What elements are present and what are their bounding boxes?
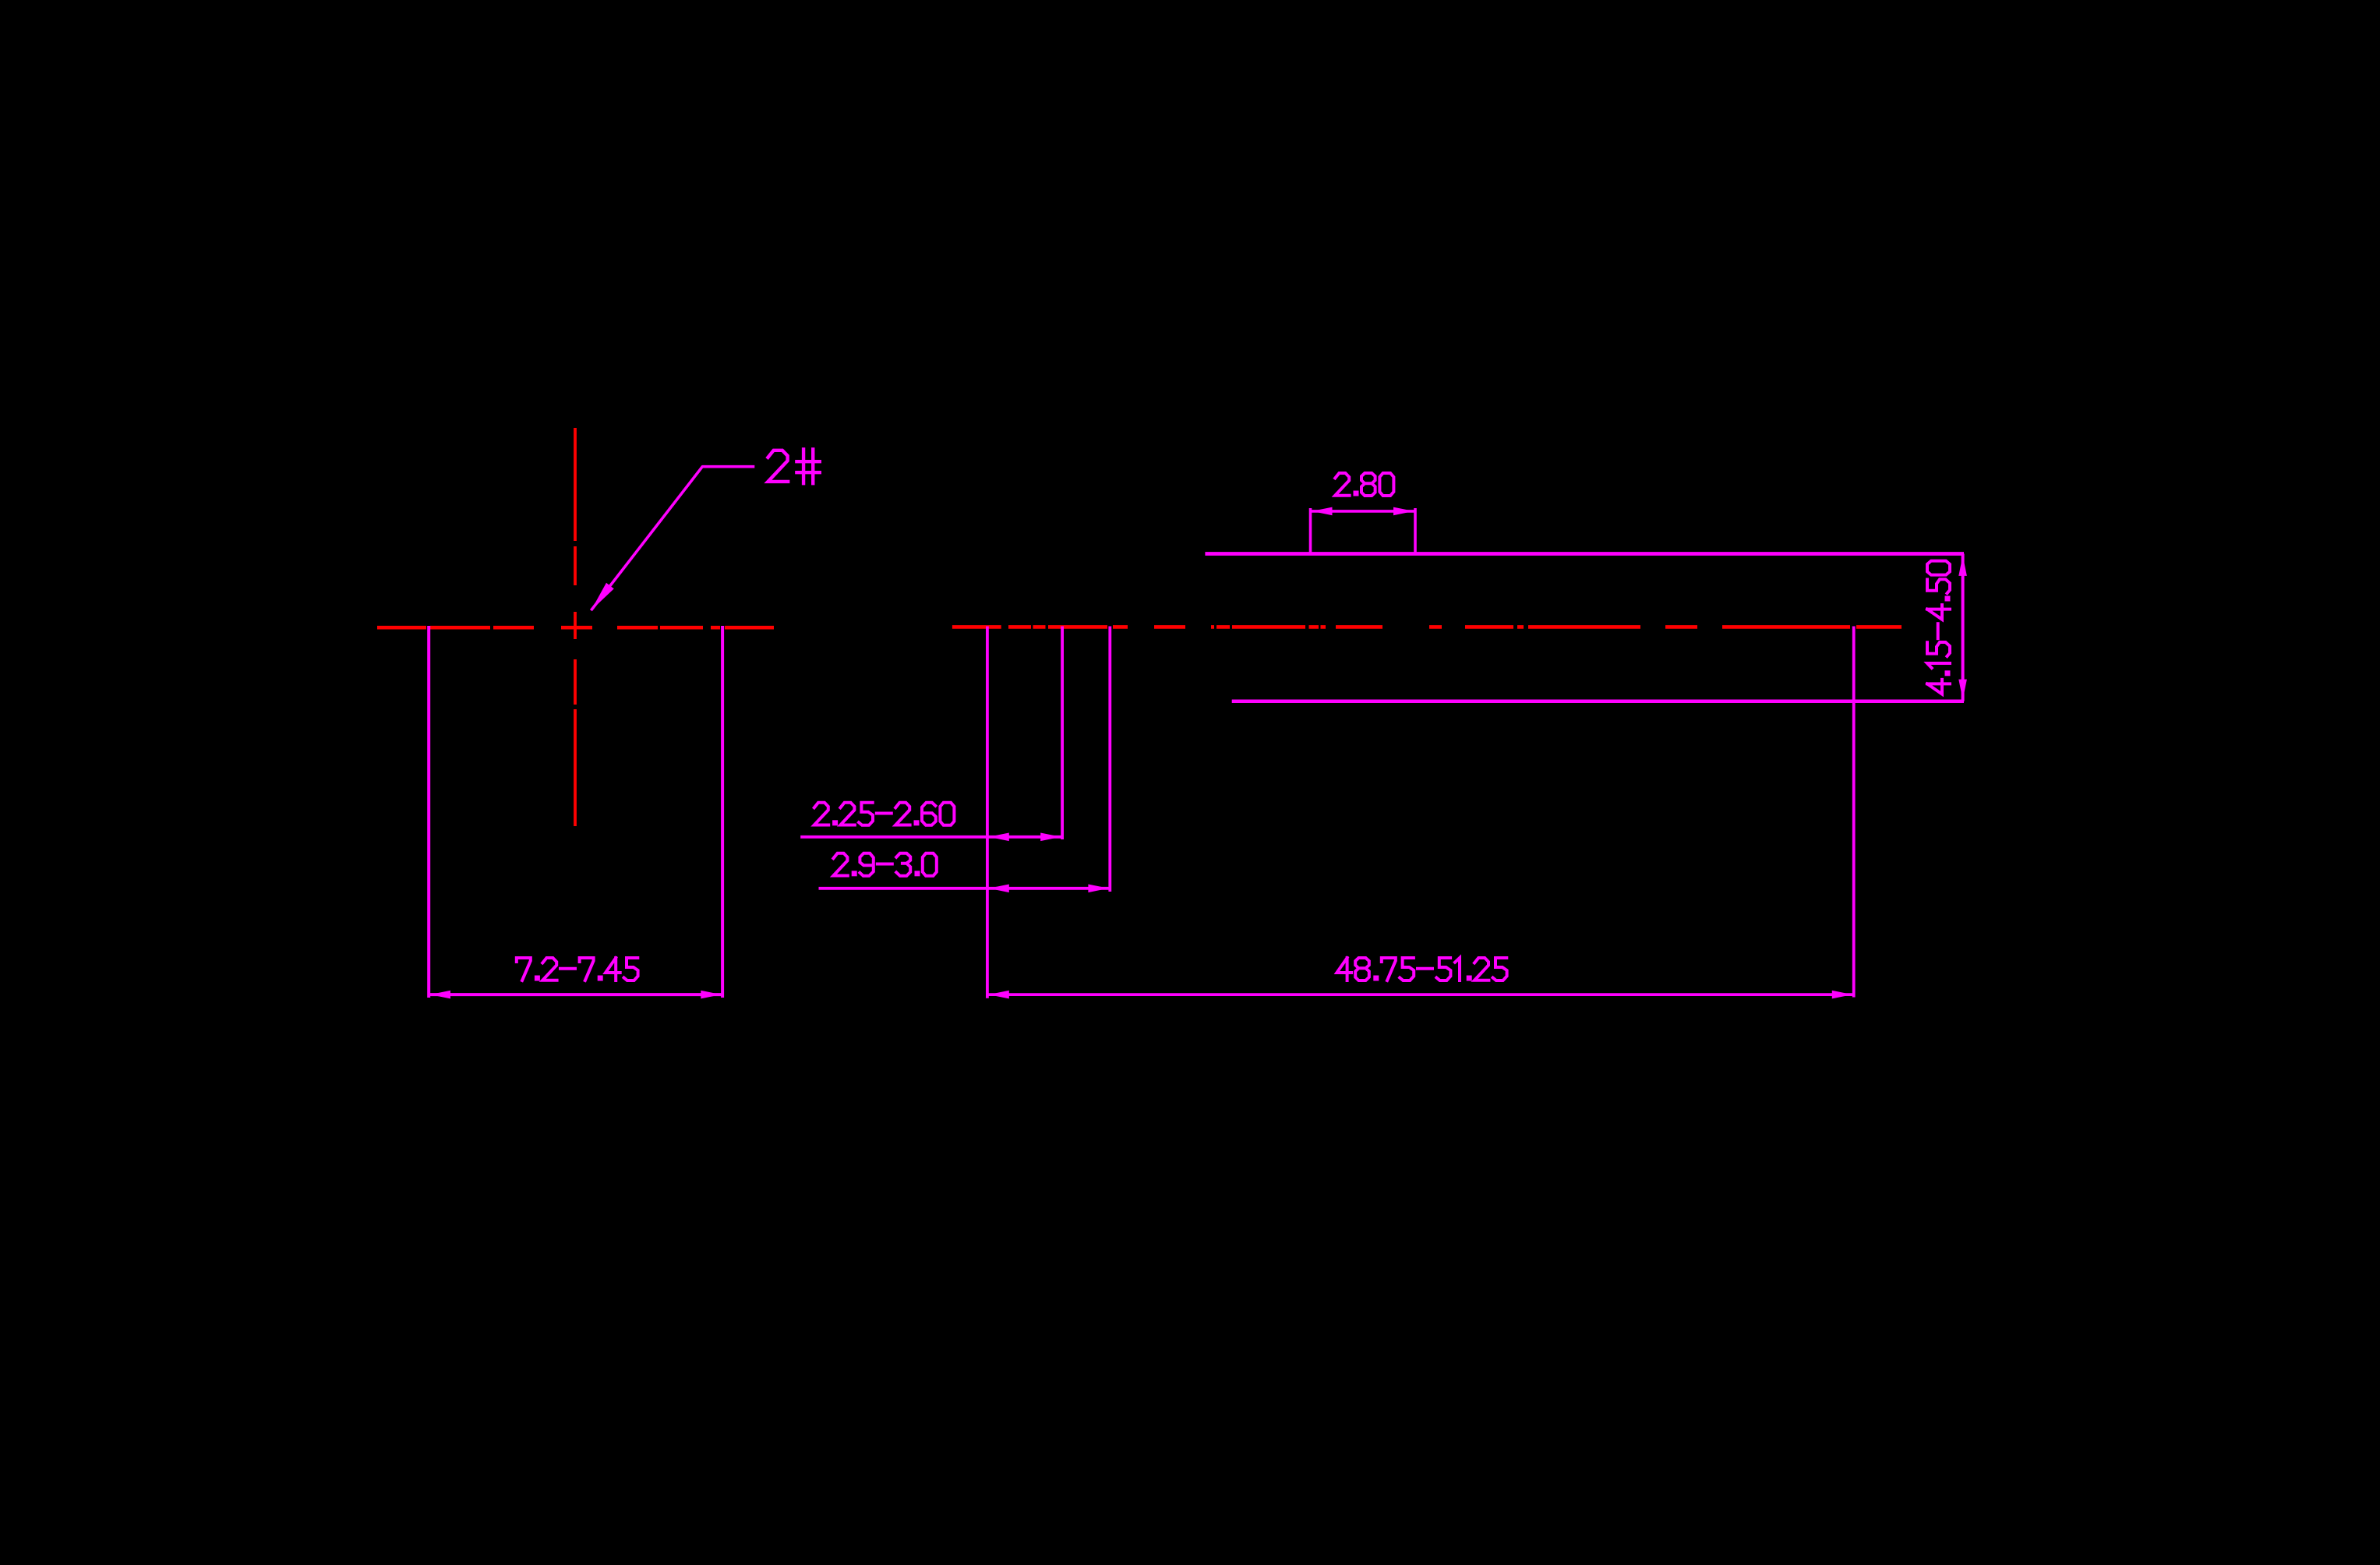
dimension text 2.25-2.60: [814, 803, 955, 826]
arrowhead left (48.75-51.25): [989, 991, 1009, 999]
dimension line 4.15-4.50: [1962, 554, 1965, 701]
arrowhead left (7.2-7.45): [430, 991, 450, 999]
extension line right (7.2-7.45): [721, 626, 724, 998]
arrowhead left (2.25-2.60): [989, 833, 1009, 842]
leader arrowhead (2#): [587, 583, 613, 613]
arrowhead right (48.75-51.25): [1832, 991, 1852, 999]
leader line to label 2#: [591, 467, 754, 611]
dimension line 2.80: [1311, 510, 1416, 513]
arrowhead down (4.15-4.50): [1958, 680, 1967, 700]
dimension line 2.9-3.0: [819, 887, 1111, 890]
extension line C (2.9-3.0): [1108, 627, 1111, 892]
dimension line 7.2-7.45: [429, 993, 722, 996]
dimension text 2.9-3.0: [833, 853, 936, 877]
dimension text 48.75-51.25: [1337, 958, 1506, 981]
extension line B (2.25-2.60): [1061, 627, 1064, 840]
extension line left (7.2-7.45): [427, 626, 430, 998]
arrowhead right (2.80): [1393, 507, 1414, 516]
arrowhead left (2.9-3.0): [989, 885, 1009, 893]
arrowhead right (2.25-2.60): [1040, 833, 1061, 842]
dimension line 48.75-51.25: [987, 993, 1854, 996]
arrowhead left (2.80): [1312, 507, 1333, 516]
arrowhead up (4.15-4.50): [1958, 556, 1967, 576]
arrowhead right (2.9-3.0): [1088, 885, 1108, 893]
extension line A (pin tip): [986, 627, 989, 998]
red horizontal centerline, left view: [377, 626, 774, 630]
extension line right (2.80): [1414, 508, 1417, 555]
dimension text 4.15-4.50: [1927, 561, 1951, 694]
dimension text 2.80: [1335, 473, 1393, 496]
extension line right (48.75-51.25): [1852, 627, 1856, 998]
dimension text 7.2-7.45: [517, 958, 638, 981]
dimension line 2.25-2.60: [800, 835, 1062, 839]
label text 2#: [768, 449, 819, 483]
extension line left (2.80): [1309, 508, 1312, 555]
top object line, right view: [1205, 552, 1964, 556]
red vertical centerline, left view: [574, 428, 577, 826]
bottom object line, right view: [1232, 700, 1964, 704]
red centerline, right view: [952, 625, 1902, 629]
arrowhead right (7.2-7.45): [701, 991, 721, 999]
